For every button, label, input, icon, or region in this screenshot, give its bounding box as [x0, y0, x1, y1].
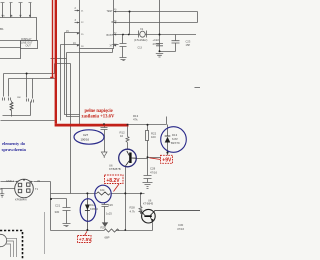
svg-text:KT8287B: KT8287B	[109, 167, 121, 171]
svg-text:68P: 68P	[105, 235, 110, 239]
svg-text:R26: R26	[101, 226, 107, 230]
svg-text:+8.2V: +8.2V	[106, 178, 120, 184]
svg-text:pełne napięcie: pełne napięcie	[85, 109, 113, 114]
svg-text:330: 330	[55, 210, 60, 214]
svg-text:C21: C21	[55, 203, 61, 207]
svg-text:IN: IN	[38, 179, 41, 183]
svg-text:100: 100	[151, 135, 156, 139]
svg-text:KD522: KD522	[90, 207, 98, 211]
svg-text:BUSY: BUSY	[107, 34, 114, 37]
svg-text:C27: C27	[83, 133, 89, 137]
svg-text:4.7k: 4.7k	[130, 210, 136, 214]
svg-text:C13: C13	[138, 47, 143, 50]
svg-text:47k: 47k	[133, 118, 138, 122]
svg-text:TEST: TEST	[107, 10, 114, 13]
svg-text:15P: 15P	[186, 43, 191, 47]
svg-text:(0.5x1MHz): (0.5x1MHz)	[134, 38, 148, 42]
svg-text:elementy do: elementy do	[2, 141, 26, 146]
svg-text:+C22: +C22	[153, 38, 160, 42]
svg-text:+7.5V: +7.5V	[79, 237, 92, 243]
svg-text:OUT: OUT	[26, 45, 32, 48]
svg-text:4700F: 4700F	[153, 42, 161, 46]
svg-text:47/16: 47/16	[150, 171, 157, 175]
svg-text:100/16: 100/16	[81, 138, 90, 142]
svg-text:C26: C26	[108, 203, 113, 207]
svg-text:sw: sw	[17, 96, 20, 99]
svg-text:+9V: +9V	[162, 158, 172, 164]
svg-text:GND 1: GND 1	[6, 179, 14, 183]
svg-text:1u25: 1u25	[106, 212, 112, 216]
svg-text:D12: D12	[90, 203, 95, 207]
svg-text:10: 10	[120, 134, 124, 138]
svg-text:KP0684AI: KP0684AI	[15, 198, 27, 202]
svg-text:sprawdzenia: sprawdzenia	[2, 147, 27, 152]
svg-text:C23: C23	[186, 40, 191, 44]
svg-text:BZX79: BZX79	[171, 141, 180, 145]
svg-text:47/16: 47/16	[177, 227, 184, 231]
svg-text:10k: 10k	[100, 188, 105, 192]
svg-text:zasilania +13.6V: zasilania +13.6V	[82, 115, 115, 120]
svg-text:KT-B645: KT-B645	[143, 201, 154, 205]
svg-text:B1: B1	[0, 27, 4, 31]
svg-text:X1: X1	[140, 27, 144, 31]
